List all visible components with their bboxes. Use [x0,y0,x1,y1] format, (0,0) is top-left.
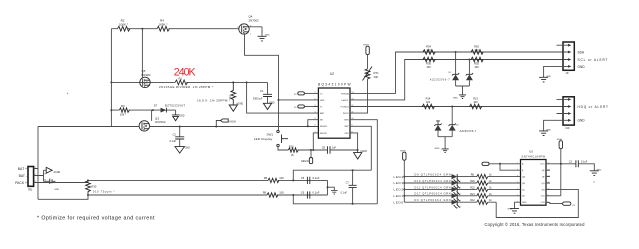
node U2 pin7 corner [312,149,314,151]
resistor R53 [471,45,483,55]
svg-text:3: 3 [517,176,518,178]
svg-text:D10 QTLP600C4 GRN: D10 QTLP600C4 GRN [415,180,451,183]
node R3/D7/Q3gate [152,109,154,111]
svg-text:BAT -: BAT - [19,174,27,178]
ground C5/C6 [328,187,338,194]
svg-text:7: 7 [315,131,316,133]
wire sense line SRP top [88,179,328,181]
svg-text:R1: R1 [179,76,183,80]
svg-text:0.1uF: 0.1uF [341,191,348,194]
wire to U2 pin2 [279,99,319,101]
ground J9 [539,76,551,82]
svg-text:SW1: SW1 [267,132,274,136]
svg-text:100: 100 [473,100,478,104]
svg-text:LED3: LED3 [394,181,404,185]
svg-text:GND: GND [179,115,184,117]
node bus row4 [403,195,405,197]
svg-text:LED4: LED4 [394,175,404,179]
node rail/pin4 drop [246,81,248,83]
node flag P2 to U2 pin3 [294,105,313,109]
svg-text:U3: U3 [529,150,533,154]
resistor R1 [175,76,187,85]
wire U2 pin8 VSS to AGND [355,133,358,152]
node R30 top [87,179,89,181]
node rail/C2 [179,126,181,128]
svg-text:12: 12 [548,176,550,178]
resistor R30 sense [86,181,115,195]
svg-text:REG25: REG25 [320,133,328,135]
ground zener1 [453,95,466,100]
svg-text:J9: J9 [566,71,569,75]
svg-text:D11 QTLP600C4 GRN: D11 QTLP600C4 GRN [415,186,451,189]
node row3/zener2 [451,106,453,108]
svg-text:10K: 10K [374,75,379,79]
node gnd tap [327,186,329,188]
svg-text:1uF: 1uF [332,145,337,149]
svg-text:R30: R30 [92,184,97,188]
svg-text:6: 6 [517,195,518,197]
resistor R2 [118,19,131,32]
svg-text:C1: C1 [260,89,264,93]
svg-text:VSS: VSS [344,133,349,135]
wire to Q5 drain [141,29,143,78]
svg-text:Copyright © 2016, Texas Instru: Copyright © 2016, Texas Instruments Inco… [485,222,586,227]
svg-text:2: 2 [238,27,239,29]
wire TB1 bottom loop [38,195,88,199]
ground C3 [590,169,602,175]
node C8/AGND vert [357,149,359,151]
svg-text:100: 100 [279,176,284,180]
wire LED0 loop to U3 QH [496,189,578,217]
resistor R13 [470,97,482,109]
wire mid rail [111,81,267,83]
wire R10 to C8 [297,149,357,151]
svg-text:3300 pF: 3300 pF [253,96,263,100]
svg-text:11: 11 [548,182,550,184]
wire BAT- node [38,170,44,181]
node left-vert / mid rail [110,81,112,83]
svg-text:RT1: RT1 [374,71,380,75]
node SRN route / C7 [352,203,354,205]
wire U3 GND [515,202,521,208]
svg-text:100: 100 [474,48,479,52]
svg-text:R20: R20 [470,180,475,183]
svg-text:10: 10 [548,189,550,191]
ground C2 AGND [175,147,190,154]
svg-text:R6: R6 [263,190,267,194]
LED row LED2 D11 R22 [394,186,521,196]
node Q4line/U2pin2 [278,99,280,101]
svg-text:R5: R5 [264,176,268,180]
capacitor C2 [170,127,185,147]
wire J10 gnd [544,120,563,130]
connector J10 [557,97,609,130]
svg-text:VCC: VCC [540,164,545,166]
capacitor C8 [322,145,337,153]
diode D1 AZ23C5V6-7 dual zener [430,52,473,95]
svg-text:GND: GND [265,34,270,36]
svg-text:D9 QTLP600C4 GRN: D9 QTLP600C4 GRN [415,174,451,177]
svg-text:R22: R22 [470,186,475,189]
wire CLR to flag [546,203,562,204]
resistor R55 [471,57,483,69]
svg-text:1: 1 [250,34,251,36]
ground Q4 [258,34,271,41]
wire TB1 pin1 up to rail [37,127,39,200]
svg-text:4: 4 [517,182,518,184]
diode D7 [153,103,185,114]
svg-text:BQ34Z100PW: BQ34Z100PW [318,83,351,87]
svg-text:* Optimize for required voltag: * Optimize for required voltage and curr… [37,215,155,221]
svg-text:R14: R14 [426,97,431,101]
svg-text:2N7002: 2N7002 [155,120,166,124]
wire U2 pin10 SRN down [355,120,377,204]
node R6/down corner [292,194,294,196]
svg-text:Pb/TS: Pb/TS [343,113,349,115]
svg-text:Fb/SCL: Fb/SCL [342,100,350,102]
wire up to SRP route [293,170,371,180]
svg-text:1: 1 [35,167,36,169]
resistor R10 [288,144,298,157]
svg-text:10k *: 10k * [120,112,127,116]
node rail/flag [215,126,217,128]
node flag VEN [216,119,236,127]
svg-text:C6: C6 [301,191,305,195]
svg-text:9: 9 [352,125,353,127]
resistor R36 [423,57,435,69]
svg-text:.010 75ppm *: .010 75ppm * [92,190,115,194]
node flag HIGH LED bus [400,151,406,203]
ground U3 [507,208,519,213]
diode D2 AZ23C5V6-7 dual zener [434,107,476,149]
svg-text:P2: P2 [44,173,46,175]
svg-text:100K *: 100K * [119,22,129,26]
svg-text:GND: GND [597,169,602,171]
svg-text:6: 6 [315,125,316,127]
node flag HIGH above RT1 [363,45,369,69]
svg-text:PACK +: PACK + [15,181,27,185]
node flag REGIN tap [310,149,312,151]
svg-text:VEN: VEN [320,100,325,102]
svg-text:100: 100 [426,100,431,104]
wire down to SRN route [293,195,377,204]
ground C1 [263,102,274,109]
ground AGND U2 [354,150,368,159]
svg-text:R13: R13 [473,97,478,101]
svg-text:GND: GND [546,129,551,131]
svg-text:12: 12 [352,105,354,107]
svg-text:J10: J10 [565,126,570,130]
node rail/R7 [232,81,234,83]
svg-text:SN74HC164PW: SN74HC164PW [522,154,546,158]
svg-text:GND: GND [522,202,527,204]
LED row LED1 D17 R21 [394,193,521,203]
op-amp U2 BQ34Z100PW [313,72,355,138]
svg-text:REGIN: REGIN [301,161,309,163]
node bus row1 [403,176,405,178]
svg-text:R3: R3 [121,104,125,108]
svg-text:FS/SDA: FS/SDA [341,92,349,95]
node flag REGIN [301,150,312,164]
svg-text:GND: GND [434,148,439,150]
node flag K1 [562,202,576,207]
svg-text:SRN: SRN [344,120,349,122]
svg-text:100: 100 [426,65,431,69]
node VCC/HIGH [560,163,562,165]
wire A-B jumper [500,164,521,170]
ground J10 [539,129,551,135]
svg-text:SRP: SRP [344,126,349,128]
svg-text:GND: GND [578,65,586,69]
svg-text:BAT +: BAT + [18,167,27,171]
svg-text:16.5 K .1% 25PPM *: 16.5 K .1% 25PPM * [197,99,231,103]
svg-text:LED2: LED2 [394,188,404,192]
net-tie BAT- to GND [44,179,60,191]
svg-text:1: 1 [315,92,316,94]
svg-text:D7: D7 [154,103,158,107]
resistor R4 [157,19,169,32]
resistor R3 [111,104,152,116]
svg-text:13: 13 [548,169,550,171]
node row2/zener2 [468,59,470,61]
svg-text:AZ23C5V6-7: AZ23C5V6-7 [460,130,477,133]
node flag into U3 A [482,162,521,165]
wire C5 end corner down [327,180,329,195]
wire top rail [111,28,238,30]
stray mark right [593,181,594,182]
wire U2 pin14 SDA up to row1 [355,52,563,93]
svg-text:2: 2 [35,174,36,176]
capacitor C3 [569,160,588,167]
svg-text:P1: P1 [44,180,46,182]
wire U2 pin5-pin6 jumper [308,120,319,127]
wire sense line SRN bottom [88,194,328,196]
wire left vertical [110,29,112,127]
node flag P1 to U2 pin1 [294,92,313,96]
svg-text:D3 QTLP600C4 GRN: D3 QTLP600C4 GRN [415,199,451,202]
wire lower rail [38,126,318,128]
wire U2 pin12 HDQ row3 [355,106,563,108]
ground D7 [172,115,185,121]
svg-text:GND: GND [269,102,274,104]
wire rail to U2 pin4 [247,82,319,113]
resistor R6 [263,190,285,197]
resistor R5 [264,176,285,183]
wire D7 node to Q3 gate [151,110,153,121]
capacitor C5 [301,176,320,184]
ground zener2 [434,148,448,153]
buffer AGND probe [44,167,61,175]
transistor Q3 [139,117,166,132]
LED row LED3 D10 R20 [394,180,521,190]
svg-text:0.1uF: 0.1uF [313,176,320,180]
svg-text:C2: C2 [173,133,177,137]
svg-text:2N7002: 2N7002 [249,18,260,22]
svg-text:3: 3 [315,105,316,107]
transistor Q5 [140,69,151,88]
svg-text:AZ23C5V6-7: AZ23C5V6-7 [430,79,450,82]
svg-text:GND: GND [185,148,190,150]
svg-text:AGND: AGND [236,102,243,105]
wire U3 VCC line [546,164,594,171]
transistor Q4 [238,15,260,36]
node bus row2 [403,182,405,184]
svg-text:C5: C5 [301,176,305,180]
svg-text:D17 QTLP600C4 GRN: D17 QTLP600C4 GRN [415,193,451,196]
node R30 bottom [87,194,89,196]
shift register U3 SN74HC164PW [517,150,550,206]
wire HIGH to CLK [546,195,561,197]
svg-text:GND: GND [54,189,59,191]
svg-text:CLR: CLR [541,202,546,204]
capacitor C7 [341,170,357,204]
thermistor RT1 [363,67,380,81]
svg-text:R10: R10 [289,144,294,148]
wire J9 gnd [544,66,563,77]
svg-text:3: 3 [35,181,36,183]
svg-text:LED0: LED0 [394,200,404,204]
svg-text:2: 2 [315,98,316,100]
node A/B junction [499,163,501,165]
svg-text:FC/HDQ: FC/HDQ [341,106,349,108]
node row1/zener1 [455,51,457,53]
node pin6 jumper on rail [307,125,309,127]
node bus row3 [403,188,405,190]
svg-text:GND: GND [578,119,586,123]
svg-text:REGIN: REGIN [320,126,327,128]
wire U2 pin7 to C8 line [313,133,318,150]
svg-text:U2: U2 [330,72,334,76]
svg-text:0.1uF: 0.1uF [313,191,320,195]
node flag HIGH below J10 [557,139,563,196]
resistor R14 [422,97,434,109]
svg-text:GND: GND [546,76,551,78]
svg-text:C8: C8 [322,145,326,149]
wire PACK+ to R30 [38,181,88,183]
connector J9 [557,42,608,75]
svg-text:SDA: SDA [578,51,585,55]
svg-text:HDQ or ALERT: HDQ or ALERT [578,105,609,109]
svg-text:13: 13 [352,98,354,100]
svg-text:QG: QG [541,183,545,185]
svg-text:14: 14 [352,92,354,94]
svg-text:11: 11 [352,112,354,114]
svg-text:0.1uF: 0.1uF [581,161,588,164]
resistor R7 vertical 16.5K [197,82,236,104]
switch SW1 LED Display [254,130,288,146]
svg-text:R12: R12 [470,199,475,202]
svg-text:LED1: LED1 [394,194,404,198]
svg-text:AGND: AGND [360,150,367,153]
svg-text:BSS84: BSS84 [142,73,151,77]
svg-text:100: 100 [474,65,479,69]
svg-text:240K: 240K [174,66,196,78]
svg-text:BZT52C5V6T: BZT52C5V6T [165,103,185,107]
svg-text:LED Display: LED Display [254,137,273,141]
svg-text:VOLTAGE DIVIDER .1% 25PPM *: VOLTAGE DIVIDER .1% 25PPM * [159,85,214,89]
svg-text:100: 100 [426,48,431,52]
wire SW1 to R10 line [278,147,288,150]
node left-vert / R3 line [110,109,112,111]
stray mark left [67,93,68,94]
svg-text:GND: GND [453,97,458,99]
svg-text:100: 100 [279,190,284,194]
svg-text:5: 5 [517,189,518,191]
svg-text:CLK: CLK [541,196,546,198]
svg-text:8: 8 [352,131,353,133]
LED row LED0 D3 R12 [394,199,497,209]
wire RT1 to U2 pin11 [355,79,368,113]
connector TB1 [15,167,38,192]
svg-text:10: 10 [352,118,354,120]
node SRP route / C7 [352,169,354,171]
ground AGND R7 [229,102,243,111]
svg-text:0.1uF: 0.1uF [170,139,177,143]
svg-text:R21: R21 [470,193,475,196]
wire U2 pin9 SRP down [355,126,371,170]
LED row LED4 D9 R8 [394,174,521,184]
node junction R2/R4 [141,28,143,30]
svg-text:SCL or ALERT: SCL or ALERT [578,58,608,62]
svg-text:HIGH: HIGH [230,120,236,123]
svg-text:4: 4 [315,112,316,114]
svg-text:TB1: TB1 [28,188,33,191]
wire U2 pin13 SCL up to row2 [355,60,563,100]
wire Q4 drain to ground [249,27,262,36]
svg-text:165K *: 165K * [158,22,168,26]
node R5/up corner [292,179,294,181]
capacitor C6 [301,191,320,199]
wire Q4 source down and right [245,33,279,130]
svg-text:AGND: AGND [54,171,61,174]
resistor R34 [423,45,435,55]
capacitor C1 [253,82,272,103]
